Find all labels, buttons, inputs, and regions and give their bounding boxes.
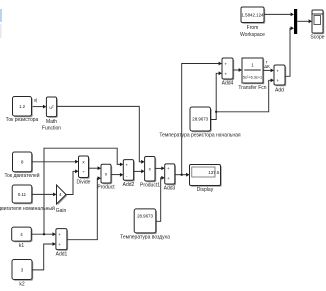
- svg-text:137.5: 137.5: [208, 170, 220, 175]
- wire: [264, 13, 291, 15]
- svg-text:28.9673: 28.9673: [137, 214, 153, 219]
- svg-text:Scope: Scope: [310, 35, 324, 41]
- add3 block: [166, 165, 176, 185]
- wire: [175, 174, 187, 176]
- product1 block: [146, 158, 156, 183]
- svg-text:Температура резистора начальна: Температура резистора начальная: [159, 133, 241, 139]
- wire: [156, 178, 162, 222]
- svg-text:+: +: [276, 78, 279, 83]
- svg-text:Add2: Add2: [123, 182, 135, 188]
- constant k1: [13, 228, 33, 242]
- wire: [32, 193, 53, 195]
- wire: [233, 69, 239, 71]
- svg-text:Transfer Fcn: Transfer Fcn: [238, 85, 266, 91]
- add1 block: [57, 230, 68, 251]
- svg-text:+: +: [58, 242, 61, 247]
- svg-text:Display: Display: [197, 187, 214, 193]
- svg-text:Add: Add: [275, 88, 284, 94]
- svg-text:Product1: Product1: [140, 183, 160, 189]
- wire: [285, 28, 291, 76]
- scope block: [313, 11, 324, 34]
- wire: [297, 20, 309, 22]
- svg-text:Workspace: Workspace: [240, 32, 265, 38]
- wire: [66, 171, 76, 194]
- display block: [191, 166, 222, 187]
- constant 28.9673 (Температура воздуха): [135, 210, 157, 234]
- svg-text:Ток двигателя номинальный: Ток двигателя номинальный: [0, 205, 55, 212]
- add4 block: [223, 59, 234, 80]
- gain K (4): [58, 186, 68, 205]
- add block: [275, 66, 286, 86]
- from workspace block: [242, 8, 265, 24]
- svg-text:Gain: Gain: [56, 208, 67, 214]
- svg-text:1.5842.124: 1.5842.124: [242, 13, 265, 18]
- add2 block: [125, 161, 135, 182]
- wire: [57, 106, 142, 161]
- svg-text:+: +: [224, 71, 227, 76]
- wire: [111, 174, 120, 176]
- svg-text:From: From: [247, 25, 259, 31]
- wire: [155, 167, 162, 169]
- wire: [32, 106, 45, 108]
- svg-text:Function: Function: [42, 126, 61, 132]
- wire: [32, 244, 53, 270]
- svg-text:Ток двигателей: Ток двигателей: [4, 172, 39, 179]
- product block: [102, 166, 112, 185]
- svg-text:+: +: [276, 68, 279, 73]
- svg-text:k2: k2: [19, 282, 25, 288]
- node branch Add3 to Add4: [181, 174, 183, 176]
- svg-text:28.9673: 28.9673: [192, 117, 208, 122]
- node branch to Add: [215, 111, 217, 113]
- svg-text:k1: k1: [19, 243, 25, 249]
- svg-text:Divide: Divide: [77, 180, 91, 186]
- svg-text:+: +: [167, 176, 170, 181]
- constant 0.11 (Ток двигателя номинальный): [13, 186, 33, 204]
- transfer fcn block: [243, 59, 264, 84]
- svg-text:Product: Product: [97, 185, 115, 191]
- constant k2: [13, 261, 33, 281]
- svg-text:5s2+6.3s+1: 5s2+6.3s+1: [243, 74, 262, 79]
- wire: [89, 167, 99, 169]
- wire: [31, 233, 52, 235]
- svg-text:1.2: 1.2: [19, 104, 26, 109]
- constant 8 (Ток двигателей): [14, 153, 33, 173]
- svg-text:0.11: 0.11: [18, 192, 27, 197]
- svg-text:Температура воздуха: Температура воздуха: [120, 235, 170, 241]
- wire: [32, 161, 75, 163]
- svg-text:Add4: Add4: [222, 81, 234, 87]
- wire: [211, 73, 219, 119]
- math function U1 (u^2): [48, 98, 58, 118]
- svg-text:Add1: Add1: [56, 252, 68, 258]
- svg-text:ΔК: ΔК: [264, 64, 270, 69]
- constant 1.2 (Ток резистора): [14, 98, 33, 118]
- svg-text:Math: Math: [46, 119, 57, 125]
- leftover toolbar sliver: [0, 9, 2, 22]
- svg-text:Add3: Add3: [164, 186, 176, 192]
- wire: [263, 69, 271, 71]
- wire: [67, 178, 99, 240]
- wire: [134, 170, 142, 172]
- svg-text:+: +: [125, 162, 128, 167]
- svg-text:u|: u|: [34, 98, 38, 103]
- svg-text:Ток резистора: Ток резистора: [6, 117, 39, 123]
- svg-text:+: +: [167, 166, 170, 171]
- divide block: [80, 157, 90, 179]
- svg-text:+: +: [58, 232, 61, 237]
- mux: [294, 9, 297, 34]
- node branch k1 to Add2: [43, 233, 45, 235]
- svg-text:+: +: [224, 62, 227, 67]
- constant 28.9673 (Температура резистора начальная): [191, 108, 212, 132]
